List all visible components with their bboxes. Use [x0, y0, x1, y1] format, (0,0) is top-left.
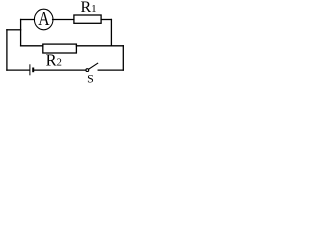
svg-text:S: S	[87, 72, 94, 86]
svg-text:R1: R1	[81, 0, 97, 16]
wire: R1 to top-right corner	[101, 19, 111, 21]
wire: inner right vertical (R1 branch down)	[110, 20, 112, 46]
wire: outer left vertical	[6, 30, 8, 70]
battery short thick plate	[32, 68, 34, 73]
wire: ammeter to R1	[53, 19, 74, 21]
wire: left stub to outer loop	[7, 29, 21, 31]
wire: top-left horizontal	[21, 19, 35, 21]
switch S pivot	[86, 69, 89, 72]
wire: inner left vertical (parallel branch)	[20, 20, 22, 46]
wire: outer right vertical	[122, 46, 124, 70]
wire: switch to bottom-right corner	[98, 69, 123, 71]
switch S lever (open)	[89, 63, 98, 69]
wire: bottom-left (battery left lead)	[7, 69, 29, 71]
wire: R2 left lead	[21, 45, 43, 47]
battery long plate	[29, 64, 31, 75]
wire: battery to switch	[34, 69, 86, 71]
resistor R1	[74, 15, 101, 23]
resistor R2	[43, 44, 77, 53]
wire: R2 right lead to outer right	[76, 45, 123, 47]
svg-text:A: A	[38, 7, 49, 29]
ammeter A	[34, 9, 53, 30]
